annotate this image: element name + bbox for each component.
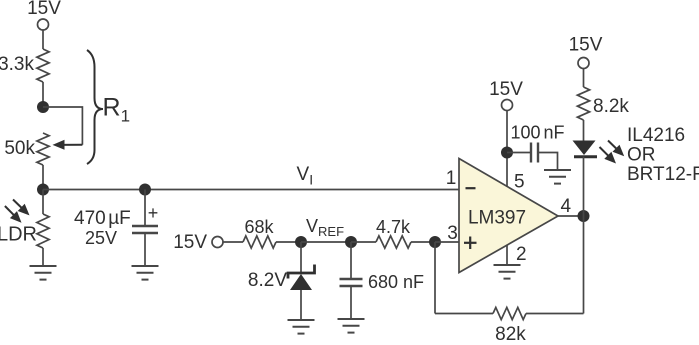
- svg-text:3.3k: 3.3k: [0, 54, 34, 75]
- LDR light arrows: [5, 200, 30, 223]
- wire 50k to node B: [42, 165, 44, 190]
- LED emission arrows: [600, 141, 625, 164]
- node VREF (junction dot): [295, 236, 307, 248]
- svg-text:68k: 68k: [244, 217, 274, 237]
- svg-text:82k: 82k: [495, 324, 526, 340]
- svg-text:8.2V: 8.2V: [248, 270, 287, 291]
- wire LDR to ground: [42, 248, 44, 266]
- svg-text:3: 3: [447, 223, 458, 244]
- svg-text:R1: R1: [103, 94, 131, 126]
- svg-text:4: 4: [561, 196, 572, 217]
- svg-text:2: 2: [516, 244, 527, 265]
- svg-text:15V: 15V: [173, 232, 207, 253]
- node F (pin 5 / 100nF junction dot): [501, 147, 513, 159]
- svg-text:8.2k: 8.2k: [593, 96, 629, 117]
- potentiometer 50k: [4, 133, 49, 165]
- zener diode 8.2V: [248, 265, 315, 292]
- capacitor 470uF 25V (polarized): [74, 203, 158, 248]
- svg-text:BRT12-F: BRT12-F: [627, 164, 699, 185]
- wire VREF to zener: [300, 242, 302, 273]
- wire node B down to LDR: [42, 190, 44, 215]
- svg-text:25V: 25V: [85, 228, 117, 248]
- pin 2 wire: [506, 245, 508, 266]
- wire 680nF to ground: [350, 286, 352, 319]
- capacitor 100nF: [511, 123, 565, 163]
- wire 8.2k to LED: [583, 120, 585, 141]
- svg-text:680 nF: 680 nF: [368, 272, 424, 292]
- wire 15V to R 3.3k: [42, 30, 44, 49]
- ground (LDR): [30, 266, 57, 280]
- wire 68k to node VREF: [276, 241, 301, 243]
- wire node D to 4.7k: [351, 241, 376, 243]
- pin 5 wire: [506, 110, 508, 187]
- 15V supply terminal (pin 5): [489, 79, 523, 111]
- node A (junction dot): [37, 101, 49, 113]
- wire 3.3k to node A: [42, 82, 44, 107]
- ground (pin 2): [494, 265, 521, 279]
- svg-text:100nF: 100nF: [511, 123, 565, 143]
- wire 100nF to ground: [538, 153, 558, 171]
- potentiometer 50k wiper arrow: [60, 144, 83, 146]
- node D (junction dot): [345, 236, 357, 248]
- svg-text:4.7k: 4.7k: [376, 217, 411, 237]
- svg-text:470µF: 470µF: [74, 208, 131, 229]
- wire VREF to node D: [301, 241, 351, 243]
- wire VI (node B to pin 1): [43, 189, 459, 191]
- wire node C to capacitor 470uF: [144, 190, 146, 227]
- resistor 3.3k: [0, 49, 49, 82]
- wire node F to 100nF: [507, 152, 531, 154]
- svg-text:15V: 15V: [489, 79, 523, 100]
- feedback wire bottom right: [526, 313, 584, 315]
- svg-text:LM397: LM397: [468, 208, 526, 229]
- svg-text:50k: 50k: [4, 138, 35, 159]
- wire node D to capacitor 680nF: [350, 242, 352, 279]
- wire LED to node G: [583, 157, 585, 217]
- 15V supply terminal (top left): [27, 0, 61, 30]
- brace for R1: [87, 50, 103, 164]
- op-amp U1 LM397: [459, 159, 558, 273]
- feedback wire bottom left: [435, 313, 493, 315]
- svg-text:15V: 15V: [27, 0, 61, 19]
- svg-text:VI: VI: [297, 164, 314, 188]
- LED D1: [573, 141, 598, 157]
- svg-text:VREF: VREF: [306, 216, 344, 239]
- feedback wire up to node G: [583, 216, 585, 314]
- node C (cap junction dot): [139, 184, 151, 196]
- svg-text:1: 1: [446, 168, 457, 189]
- node E (junction dot): [429, 236, 441, 248]
- node G (output junction dot): [578, 210, 590, 222]
- resistor 68k: [243, 217, 276, 248]
- svg-text:LDR: LDR: [0, 224, 37, 246]
- resistor 4.7k: [376, 217, 411, 248]
- 15V supply terminal (middle): [173, 232, 223, 253]
- label IL4216 OR BRT12-F: [627, 125, 699, 185]
- svg-text:5: 5: [514, 172, 525, 193]
- svg-text:+: +: [148, 203, 159, 223]
- node B (junction dot): [37, 184, 49, 196]
- wire 15V to 68k: [223, 241, 243, 243]
- svg-text:IL4216: IL4216: [627, 125, 685, 146]
- ground (680nF): [338, 319, 365, 333]
- pin 4 output wire: [558, 215, 584, 217]
- wiper loop wire (node A to pot wiper): [43, 107, 82, 145]
- wire 15V to 8.2k: [583, 69, 585, 87]
- wire node E to pin 3: [435, 241, 459, 243]
- resistor 82k: [493, 307, 526, 345]
- 15V supply terminal (LED branch): [569, 35, 603, 69]
- wire capacitor to ground: [144, 233, 146, 266]
- capacitor 680nF: [340, 272, 425, 292]
- resistor 8.2k: [577, 87, 629, 120]
- wire zener to ground: [300, 290, 302, 320]
- svg-text:15V: 15V: [569, 35, 603, 56]
- svg-text:OR: OR: [627, 145, 656, 166]
- ground (470uF): [132, 266, 159, 280]
- LDR photoresistor: [0, 214, 49, 248]
- ground (100nF): [544, 170, 571, 184]
- ground (zener): [288, 320, 315, 334]
- wire 4.7k to node E: [411, 241, 435, 243]
- feedback wire node E down: [434, 242, 436, 314]
